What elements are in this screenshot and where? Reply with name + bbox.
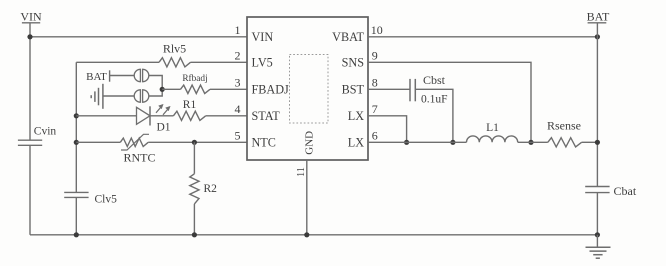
wire ground to lower connector (103, 95, 135, 97)
node FBADJ junction (160, 87, 165, 92)
wire VIN to pin 1 (30, 36, 247, 38)
svg-text:3: 3 (235, 76, 241, 90)
wire pin 8 to Cbst (368, 88, 410, 90)
node junction left vertical / STAT row (74, 113, 79, 118)
wire FBADJ node to resistor Rfbadj (162, 88, 180, 90)
wire BAT terminal to upper connector (110, 75, 135, 77)
resistor Rsense (547, 119, 582, 147)
node junction R2 / ground rail (192, 232, 197, 237)
wire GND pin to ground rail (306, 160, 308, 235)
svg-text:GND: GND (304, 131, 316, 155)
svg-text:8: 8 (372, 76, 378, 90)
op-amp U1 charger IC body (247, 17, 368, 160)
svg-text:R2: R2 (204, 183, 218, 195)
svg-text:10: 10 (371, 23, 383, 37)
resistor R1 (173, 99, 205, 120)
svg-text:Cbst: Cbst (423, 73, 446, 87)
wire Rsense to BAT rail (582, 141, 598, 143)
svg-text:5: 5 (235, 129, 241, 143)
wire R2 bottom lead (193, 204, 195, 235)
svg-text:LX: LX (348, 135, 364, 149)
inductor L1 (467, 122, 518, 142)
capacitor Cbst (410, 73, 448, 106)
wire Clv5 to ground rail (75, 197, 77, 234)
svg-text:D1: D1 (156, 122, 170, 134)
node junction SNS / output (528, 140, 533, 145)
wire NTC row from left vertical to RNTC (76, 141, 120, 143)
wire L1 to Rsense (518, 141, 548, 143)
node VIN (input terminal label) (20, 10, 42, 24)
svg-text:9: 9 (372, 49, 378, 63)
node junction VIN/pin1 (27, 34, 32, 39)
svg-text:Rfbadj: Rfbadj (182, 73, 207, 84)
svg-text:2: 2 (235, 49, 241, 63)
svg-text:NTC: NTC (252, 135, 276, 149)
wire RNTC to pin 5 (148, 141, 247, 143)
svg-text:11: 11 (296, 167, 307, 177)
wire ground rail (bottom bus) (30, 234, 597, 236)
svg-text:Cvin: Cvin (34, 126, 57, 138)
svg-text:VBAT: VBAT (332, 30, 364, 44)
wire R2 top lead (193, 142, 195, 174)
resistor R2 (190, 174, 217, 204)
svg-text:FBADJ: FBADJ (252, 82, 290, 96)
U1 exposed pad (dashed) (290, 55, 329, 124)
wire BAT vertical rail (lower, Cbat to ground rail) (596, 193, 598, 235)
node junction NTC row / R2 (192, 140, 197, 145)
wire STAT row from left vertical to diode D1 (76, 115, 136, 117)
wire Rlv5 to pin 2 (191, 61, 248, 63)
capacitor Cvin (18, 126, 57, 146)
svg-text:1: 1 (235, 23, 241, 37)
svg-text:4: 4 (235, 102, 241, 116)
svg-text:RNTC: RNTC (123, 151, 155, 165)
svg-text:7: 7 (372, 102, 378, 116)
node junction BAT rail / ground rail (595, 232, 600, 237)
resistor RNTC (thermistor) (120, 134, 155, 164)
svg-text:Cbat: Cbat (614, 184, 637, 198)
wire BAT vertical rail (upper, down to Cbat) (596, 23, 598, 187)
svg-text:SNS: SNS (342, 55, 365, 69)
svg-text:BAT: BAT (86, 71, 107, 83)
wire lower connector to corner, up to FBADJ node (149, 89, 163, 96)
node junction Cbst / LX (450, 140, 455, 145)
svg-text:BAT: BAT (587, 10, 610, 24)
diode D1 (LED) (137, 104, 171, 133)
wire D1 to resistor R1 (150, 115, 173, 117)
resistor Rlv5 (159, 42, 191, 67)
wire VIN vertical rail (upper part, down to Cvin) (29, 23, 31, 140)
node junction Clv5 / ground rail (74, 232, 79, 237)
ground (battery return, rotated left) (91, 84, 103, 109)
node junction pin10 / BAT rail (595, 34, 600, 39)
svg-text:L1: L1 (486, 122, 499, 134)
svg-text:STAT: STAT (252, 109, 281, 123)
wire pin 6 LX to inductor L1 (368, 141, 467, 143)
svg-text:0.1uF: 0.1uF (421, 94, 448, 106)
node BAT (output terminal label) (587, 10, 610, 24)
svg-text:VIN: VIN (252, 30, 274, 44)
node junction GND / ground rail (304, 232, 309, 237)
wire R1 to pin 4 (206, 115, 247, 117)
capacitor Clv5 (64, 192, 117, 205)
node junction output / BAT rail (595, 140, 600, 145)
wire upper connector to corner, down to FBADJ node (149, 76, 163, 90)
svg-text:R1: R1 (183, 99, 197, 111)
wire pin 9 SNS to feedback corner (368, 62, 531, 142)
wire left branch vertical (pin2 row down to Clv5) (75, 62, 77, 192)
svg-text:Rsense: Rsense (547, 119, 581, 133)
resistor Rfbadj (181, 73, 211, 94)
capacitor Cbat (585, 184, 637, 198)
wire pin 10 to BAT rail (368, 36, 597, 38)
node junction left vertical / NTC row (74, 140, 79, 145)
svg-text:6: 6 (372, 129, 378, 143)
wire Rfbadj to pin 3 (210, 88, 247, 90)
ground (output, bottom right) (586, 235, 611, 258)
svg-text:LX: LX (348, 109, 364, 123)
connector J1 upper (mated pair) (134, 69, 149, 81)
svg-text:BST: BST (342, 82, 365, 96)
wire Cbst to LX node (415, 89, 453, 142)
wire pin 2 row from left vertical to resistor Rlv5 (76, 61, 159, 63)
svg-text:VIN: VIN (20, 10, 42, 24)
node BAT sense terminal (86, 70, 109, 83)
svg-text:LV5: LV5 (252, 55, 273, 69)
connector J1 lower (mated pair) (134, 90, 149, 102)
svg-text:Clv5: Clv5 (95, 194, 118, 206)
wire pin 7 to LX node (368, 116, 407, 143)
wire VIN vertical rail (lower part, Cvin to ground rail) (29, 145, 31, 235)
svg-text:Rlv5: Rlv5 (163, 42, 186, 56)
node junction pin7 / pin6 (404, 140, 409, 145)
